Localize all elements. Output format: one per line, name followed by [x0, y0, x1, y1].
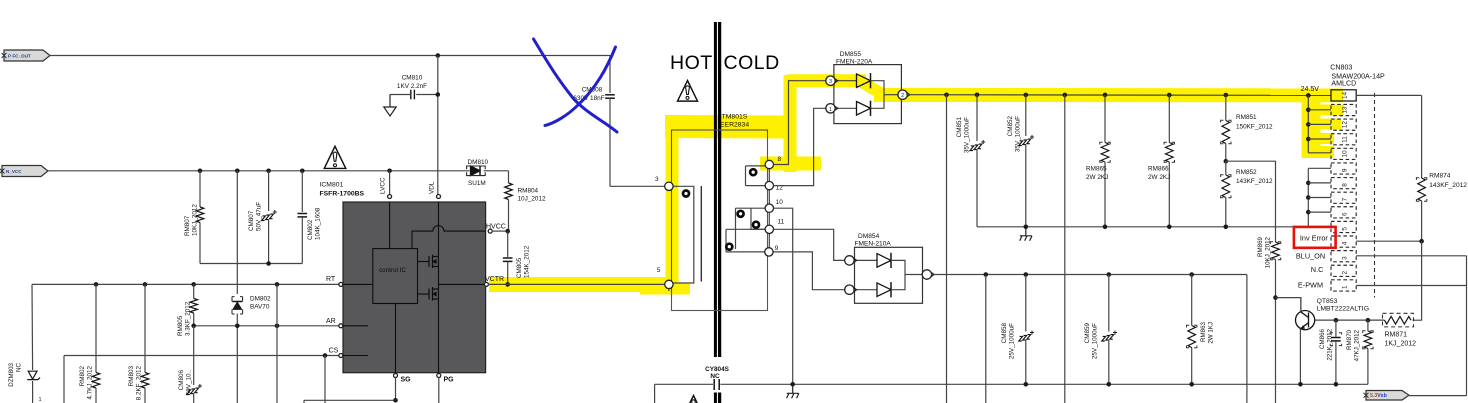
node QT853 collector junction	[1273, 295, 1278, 300]
svg-text:2W 2KJ: 2W 2KJ	[1086, 174, 1108, 181]
transformer primary polarity dot	[683, 191, 689, 197]
secondary polarity dot w1	[750, 169, 756, 175]
svg-text:10KJ_2012: 10KJ_2012	[192, 204, 199, 236]
svg-text:control IC: control IC	[379, 267, 406, 274]
capacitor CM806 50V_10uF	[193, 326, 195, 385]
svg-text:9: 9	[1342, 168, 1349, 172]
svg-text:PG: PG	[444, 377, 455, 384]
transformer primary winding	[673, 186, 694, 283]
node pin10 gnd junction	[790, 382, 795, 387]
IC ICM801 FSFR-1700US body	[343, 202, 486, 373]
svg-text:NC: NC	[16, 362, 23, 371]
svg-text:CM807: CM807	[248, 210, 255, 231]
svg-text:TM801S: TM801S	[722, 114, 748, 121]
pin HVCC	[488, 229, 492, 233]
CN803 pin 14	[1331, 90, 1356, 101]
wire VCTR to transformer pin 5	[488, 283, 665, 285]
svg-text:VCTR: VCTR	[485, 276, 504, 283]
warning triangle below HOT	[678, 81, 698, 102]
svg-text:10: 10	[1342, 150, 1349, 158]
wire secondary GND rail	[977, 226, 1308, 228]
svg-text:35V_1000uF: 35V_1000uF	[1015, 116, 1022, 152]
svg-text:CM806: CM806	[178, 370, 185, 391]
node RM802 junction	[94, 282, 99, 287]
svg-text:2W 2KJ: 2W 2KJ	[1148, 174, 1170, 181]
svg-text:FMEN-210A: FMEN-210A	[855, 241, 892, 248]
svg-text:QT853: QT853	[1317, 298, 1338, 305]
transformer TM801S EER2834 enclosure	[672, 130, 768, 311]
svg-text:BLU_ON: BLU_ON	[1296, 251, 1325, 260]
svg-text:RM866: RM866	[1148, 166, 1169, 173]
svg-text:CM866: CM866	[1319, 328, 1326, 349]
node CN803 feed junction	[1306, 93, 1311, 98]
net flag N_VCC	[2, 166, 48, 177]
node RM807 junction	[198, 169, 203, 174]
node CM858 gnd	[1024, 382, 1029, 387]
svg-text:24.5V: 24.5V	[1301, 86, 1320, 93]
CN803 pin 9	[1331, 163, 1356, 174]
highlight pin8 riser	[784, 75, 797, 172]
capacitor CY804S NC	[713, 379, 715, 390]
wire x277 column	[276, 284, 278, 403]
svg-text:RM807: RM807	[184, 215, 191, 236]
highlight pin8 stub	[760, 157, 821, 171]
svg-text:VDL: VDL	[429, 181, 436, 194]
warning triangle bottom partial	[686, 396, 702, 403]
svg-text:CM810: CM810	[402, 75, 423, 82]
svg-text:AMLCD: AMLCD	[1331, 80, 1356, 88]
CN803 pin 12	[1331, 119, 1356, 130]
resistor RM804 10J_2012	[508, 171, 510, 183]
svg-text:143KF_2012: 143KF_2012	[1429, 182, 1467, 189]
node CM807 junction	[266, 169, 271, 174]
svg-text:35V_1000uF: 35V_1000uF	[964, 117, 971, 153]
svg-text:RM863: RM863	[1200, 321, 1207, 342]
node CS junction	[323, 353, 328, 358]
wire AR	[194, 325, 339, 327]
svg-text:CM851: CM851	[956, 117, 963, 138]
svg-text:Inv Error: Inv Error	[1300, 234, 1329, 243]
svg-text:HOT: HOT	[670, 52, 713, 74]
node CM859 junction	[1107, 272, 1112, 277]
svg-text:RM805: RM805	[177, 315, 184, 336]
wire DM802 column	[236, 171, 238, 294]
capacitor CM807 50V_47uF	[268, 171, 270, 211]
wire CS sense column	[324, 356, 326, 403]
transformer pin 10	[765, 204, 773, 212]
wire P FC_OUT	[50, 55, 610, 57]
transformer pin5 to enclosure bottom	[668, 289, 670, 291]
svg-text:1KJ_2012: 1KJ_2012	[1385, 340, 1417, 347]
wire RT left column / zener branch	[31, 284, 34, 370]
node CM859 gnd	[1107, 382, 1112, 387]
mosfet Q upper	[429, 255, 439, 269]
svg-text:N.C: N.C	[1311, 265, 1324, 274]
svg-text:11: 11	[778, 219, 785, 226]
wire pin8 to DM855	[774, 81, 827, 165]
svg-text:13: 13	[1342, 106, 1349, 114]
node RM863 junction	[1189, 272, 1194, 277]
IC internal HVCC line with hop	[412, 226, 486, 249]
wire x946 column	[946, 95, 948, 403]
svg-text:5.3Vsb: 5.3Vsb	[1370, 393, 1387, 399]
svg-text:1: 1	[829, 107, 832, 113]
wire RT	[32, 283, 339, 285]
svg-text:COLD: COLD	[724, 52, 780, 74]
resistor RM874 143KF_2012	[1421, 95, 1423, 178]
annotation blue cross stroke 1	[534, 39, 618, 132]
svg-text:SG: SG	[401, 377, 412, 384]
node CM852 junction	[1024, 93, 1029, 98]
transformer secondary pins bus	[768, 165, 770, 252]
svg-text:8: 8	[1342, 183, 1349, 187]
wire collector link	[1276, 298, 1301, 312]
ground symbol GND rail	[1020, 228, 1032, 241]
wire x1064 column	[1064, 95, 1066, 403]
annotation blue cross stroke 2	[545, 47, 616, 126]
svg-text:E-PWM: E-PWM	[1298, 281, 1323, 290]
svg-text:50V_10..: 50V_10..	[186, 370, 193, 395]
net flag P FC_OUT	[4, 50, 50, 61]
node RM851 junction	[1224, 93, 1229, 98]
svg-text:RM869: RM869	[1257, 236, 1264, 257]
pin VDL	[437, 195, 441, 199]
DM855 pin 3	[826, 76, 835, 85]
capacitor CM805 154K_2012	[507, 231, 509, 257]
IC internal SG line	[395, 304, 397, 373]
wire RM874 column to RM871	[1413, 241, 1422, 320]
transformer core	[700, 186, 702, 282]
svg-text:RM803: RM803	[128, 366, 135, 387]
svg-text:7: 7	[1342, 197, 1349, 201]
CN803 pin 10	[1331, 148, 1356, 159]
node x277 RT junction	[275, 282, 280, 287]
wire pin 1 out E-PWM	[1356, 285, 1466, 287]
resistor RM851 150KF_2012	[1225, 95, 1227, 121]
transformer secondary winding 11-9	[726, 228, 765, 230]
wire CS	[64, 355, 339, 357]
svg-text:47KJ_2012: 47KJ_2012	[1354, 329, 1361, 361]
pin RT	[339, 282, 343, 286]
svg-text:1: 1	[1342, 285, 1349, 289]
svg-text:10J_2012: 10J_2012	[518, 196, 547, 203]
DM854 pin bottom	[845, 285, 854, 294]
label Inv Error with red box	[1294, 227, 1336, 248]
svg-text:2W 1KJ: 2W 1KJ	[1208, 322, 1215, 344]
transformer pin 9	[765, 248, 773, 256]
pin SG	[394, 374, 398, 378]
svg-text:P FC_OUT: P FC_OUT	[8, 53, 31, 58]
svg-text:25V_1000uF: 25V_1000uF	[1009, 323, 1016, 359]
svg-text:RT: RT	[326, 276, 336, 283]
IC internal LVCC line	[389, 202, 391, 249]
wire QT853 base node	[1315, 319, 1385, 321]
DM855 pin 2	[898, 90, 907, 99]
svg-text:RM874: RM874	[1429, 173, 1451, 180]
zener DZM803 NC	[28, 371, 37, 379]
CN803 pin 6	[1331, 207, 1356, 218]
wire DM854 output rail	[931, 274, 1247, 276]
node RM805 junction	[191, 282, 196, 287]
node RM851/RM852 midpoint	[1224, 159, 1229, 164]
CN803 pin 4	[1331, 236, 1356, 247]
secondary polarity dot w2b	[753, 222, 759, 228]
svg-text:SU1M: SU1M	[468, 180, 486, 187]
svg-text:CM852: CM852	[1007, 116, 1014, 137]
CN803 pin 13	[1331, 104, 1356, 115]
wire x985 column	[985, 275, 987, 403]
svg-text:221K_2012: 221K_2012	[1327, 328, 1334, 360]
wire pin 3 out 5.3Vsb	[1356, 255, 1466, 257]
wire 24.5V rail	[906, 94, 1331, 97]
ground earth CM810	[384, 95, 396, 117]
svg-text:14: 14	[1342, 91, 1349, 99]
IC internal gate lines	[418, 261, 430, 263]
CN803 outer dashed edge	[1374, 93, 1376, 298]
transformer pin 5	[665, 280, 673, 288]
mosfet Q lower	[429, 287, 439, 301]
net flag 5.3Vsb	[1366, 391, 1409, 401]
svg-text:3: 3	[1342, 256, 1349, 260]
svg-text:HVCC: HVCC	[486, 223, 506, 230]
node x1064 junction	[1063, 93, 1068, 98]
svg-text:2: 2	[1342, 270, 1349, 274]
resistor RM802 4.7KJ_2012	[95, 284, 97, 372]
node CM858 junction	[1024, 272, 1029, 277]
svg-text:CM858: CM858	[1001, 323, 1008, 344]
node CM802 junction	[300, 169, 305, 174]
svg-text:2: 2	[901, 93, 904, 99]
CN803 pin 1	[1331, 280, 1356, 291]
svg-text:4: 4	[1342, 241, 1349, 245]
capacitor CM859 25V_1000uF	[1108, 275, 1110, 332]
diode DM802 BAV70	[232, 301, 242, 303]
svg-text:DM802: DM802	[250, 296, 271, 303]
svg-text:DZM803: DZM803	[8, 362, 15, 386]
svg-text:CS: CS	[329, 348, 339, 355]
capacitor CM851 35V_1000uF	[976, 95, 978, 141]
svg-text:CN803: CN803	[1330, 64, 1352, 72]
wire VDL drop	[437, 56, 439, 195]
resistor RM807 10KJ_2012	[199, 171, 201, 207]
ground symbol bottom rail	[787, 385, 799, 398]
resistor RM852 143KF_2012	[1225, 161, 1227, 175]
IC internal VCTR tap	[439, 283, 486, 285]
CN803 pin 2	[1331, 265, 1356, 276]
svg-text:RM871: RM871	[1385, 332, 1408, 339]
svg-text:4.7KJ_2012: 4.7KJ_2012	[87, 366, 94, 400]
resistor RM870 47KJ_2012	[1367, 320, 1369, 331]
svg-text:154K_2012: 154K_2012	[524, 245, 531, 278]
svg-text:3.3KF_2012: 3.3KF_2012	[185, 301, 192, 336]
svg-text:11: 11	[1342, 136, 1349, 143]
svg-text:DM854: DM854	[858, 233, 880, 240]
wire HVCC	[492, 230, 508, 232]
diode DM810 SU1M	[471, 166, 481, 176]
pin LVCC	[388, 195, 392, 199]
svg-text:143KF_2012: 143KF_2012	[1236, 178, 1273, 185]
svg-text:1KV 2.2nF: 1KV 2.2nF	[397, 83, 427, 90]
resistor RM869 10KJ_2012	[1272, 242, 1280, 260]
svg-text:CM805: CM805	[516, 257, 523, 278]
svg-text:EER2834: EER2834	[720, 121, 749, 128]
svg-text:RM865: RM865	[1086, 166, 1107, 173]
pin VCTR	[484, 282, 488, 286]
svg-text:8: 8	[778, 156, 782, 163]
svg-text:RM851: RM851	[1236, 114, 1257, 121]
resistor RM871 1KJ_2012	[1385, 316, 1412, 324]
DM854 pin top	[845, 256, 854, 265]
svg-text:NC: NC	[710, 373, 720, 380]
IC internal VDL bus	[438, 202, 440, 373]
wire QT853 collector	[1300, 298, 1302, 312]
node RM863 gnd	[1189, 382, 1194, 387]
svg-text:50V_47uF: 50V_47uF	[256, 202, 263, 231]
capacitor CM852 35V_1000uF	[1025, 95, 1027, 136]
svg-text:25V_1000uF: 25V_1000uF	[1092, 323, 1099, 359]
svg-text:10KJ_2012: 10KJ_2012	[1265, 236, 1272, 268]
DM854 pin out	[922, 270, 931, 279]
transformer secondary winding 10-11	[736, 207, 766, 209]
node VDL drop junction	[436, 53, 441, 58]
node RM803 junction	[143, 282, 148, 287]
IC internal RT/AR/CS stubs	[343, 283, 373, 285]
svg-text:CM859: CM859	[1084, 323, 1091, 344]
secondary polarity dot w3	[726, 244, 732, 250]
svg-text:5: 5	[1342, 227, 1349, 231]
highlight CN803 feed chain	[1302, 89, 1321, 158]
resistor RM805 3.3KF_2012	[193, 284, 195, 298]
wire CM808 to transformer pin 3	[610, 185, 665, 187]
wire pin 4 out	[1356, 240, 1421, 242]
node LVCC junction	[387, 169, 392, 174]
highlight wire into DM855	[787, 74, 866, 87]
wire N_VCC rail	[48, 170, 470, 172]
svg-text:DM855: DM855	[840, 51, 862, 58]
transformer pin 12	[765, 181, 773, 189]
wire CN803 gnd chain 9-6	[1307, 168, 1309, 227]
isolation barrier HOT/COLD	[714, 22, 717, 357]
wire pin9 to DM854	[773, 252, 845, 290]
highlight transformer left edge	[666, 127, 679, 288]
capacitor CM858 25V_1000uF	[1025, 275, 1027, 332]
capacitor CM802 104K_1608	[301, 171, 303, 212]
node x946 junction	[944, 93, 949, 98]
wire pin12 to DM855	[774, 108, 827, 185]
node CM851 junction	[975, 93, 980, 98]
svg-text:DM810: DM810	[468, 159, 489, 166]
resistor RM803 8.2KF_2012	[144, 284, 146, 372]
svg-text:AR: AR	[326, 318, 336, 325]
svg-text:RM870: RM870	[1346, 329, 1353, 350]
CN803 pin 7	[1331, 192, 1356, 203]
CN803 pin 5	[1331, 221, 1356, 232]
wire bottom GND rail	[655, 383, 713, 385]
wire 5.3Vsb	[1409, 395, 1467, 397]
pin PG	[437, 374, 441, 378]
transformer pin 3	[665, 182, 673, 190]
svg-text:150KF_2012: 150KF_2012	[1236, 123, 1273, 130]
svg-text:CM802: CM802	[307, 219, 314, 240]
wire LVCC drop	[389, 171, 391, 195]
pin AR	[339, 324, 343, 328]
svg-text:630V 18nF: 630V 18nF	[573, 95, 604, 102]
svg-text:10: 10	[776, 199, 784, 206]
svg-text:FSFR-1700BS: FSFR-1700BS	[320, 191, 365, 198]
capacitor CM808 (crossed out)	[609, 56, 611, 94]
wire QT853 emitter	[1299, 329, 1301, 385]
CN803 pin 8	[1331, 178, 1356, 189]
svg-text:RM852: RM852	[1236, 169, 1257, 176]
node RM874/pin4 junction	[1419, 239, 1424, 244]
svg-text:RM802: RM802	[79, 366, 86, 387]
transformer pin 8	[765, 160, 773, 168]
node x985 junction	[984, 272, 989, 277]
highlight 24.5V rail	[874, 88, 1343, 102]
svg-text:5: 5	[657, 267, 661, 274]
svg-text:LVCC: LVCC	[380, 177, 387, 194]
IC internal control IC box	[373, 249, 418, 304]
wire divider midpoint to RM869	[1226, 161, 1276, 242]
highlight transformer top edge	[665, 115, 793, 139]
wire pin 14 out	[1356, 94, 1421, 96]
svg-text:N_VCC: N_VCC	[6, 169, 22, 174]
svg-text:8.2KF_2012: 8.2KF_2012	[136, 366, 143, 401]
DM855 pin 1	[826, 104, 835, 113]
CN803 pin 3	[1331, 251, 1356, 262]
resistor RM865 2W 2KJ	[1104, 95, 1106, 143]
wire pin10 ground column	[774, 208, 793, 384]
resistor RM863 2W 1KJ	[1191, 275, 1193, 326]
svg-text:3: 3	[829, 79, 832, 85]
svg-text:3: 3	[655, 176, 659, 183]
wire SG return	[304, 399, 396, 401]
svg-text:ICM801: ICM801	[320, 182, 344, 189]
transformer secondary winding 8-12	[746, 165, 766, 167]
svg-text:LMBT2222ALTIG: LMBT2222ALTIG	[1317, 305, 1369, 312]
svg-text:RM804: RM804	[518, 188, 539, 195]
svg-text:6: 6	[1342, 212, 1349, 216]
highlight VCTR-to-pin5 wire	[489, 277, 678, 292]
capacitor CM810	[416, 94, 438, 96]
node RM866 junction	[1167, 93, 1172, 98]
node RM865 junction	[1103, 93, 1108, 98]
capacitor CM866 221K_2012	[1335, 320, 1337, 337]
svg-text:9: 9	[775, 245, 779, 252]
warning triangle near ICM801	[324, 146, 346, 168]
wire RM807/CM807/CM802 bottoms	[200, 263, 302, 265]
CN803 pin 11	[1331, 134, 1356, 145]
wire CN803 feed chain 13-10	[1307, 95, 1309, 152]
svg-text:BAV70: BAV70	[250, 304, 270, 311]
pin CS	[339, 354, 343, 358]
svg-text:12: 12	[1342, 121, 1349, 129]
transformer pin 11	[765, 225, 773, 233]
resistor RM866 2W 2KJ	[1168, 95, 1170, 143]
svg-text:104K_1608: 104K_1608	[315, 207, 322, 240]
wire pin11 to DM854	[774, 229, 846, 260]
svg-text:1: 1	[39, 397, 42, 403]
secondary polarity dot w2	[738, 211, 744, 217]
node DM802 branch junction	[235, 169, 240, 174]
